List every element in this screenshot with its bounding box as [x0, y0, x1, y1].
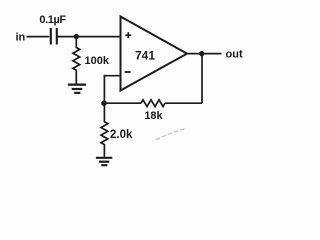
scan artifact mark: [156, 128, 187, 139]
junction node B: [101, 100, 107, 106]
wire op-amp - input stub: [104, 75, 121, 77]
ground G2: [96, 158, 112, 165]
resistor R2 2.0k: [101, 103, 108, 157]
resistor R1 100k: [73, 37, 80, 84]
svg-text:in: in: [16, 32, 26, 44]
wire node B to R3: [104, 102, 141, 104]
capacitor C1 0.1uF: [51, 28, 57, 45]
junction node OUT: [199, 51, 204, 56]
junction node A: [74, 34, 79, 39]
minus input marker: [125, 71, 131, 73]
resistor R3 18k: [141, 100, 165, 107]
wire in to C1: [27, 36, 50, 38]
svg-text:741: 741: [135, 49, 155, 63]
wire C1 to op-amp + input: [57, 36, 121, 38]
svg-text:18k: 18k: [144, 110, 163, 122]
svg-text:0.1µF: 0.1µF: [39, 14, 66, 26]
plus input marker: [125, 32, 131, 38]
svg-text:2.0k: 2.0k: [110, 129, 133, 141]
svg-text:100k: 100k: [85, 55, 110, 67]
wire - input down to node B: [103, 75, 105, 103]
op-amp U1 741: [121, 17, 188, 91]
ground G1: [68, 85, 86, 93]
svg-text:out: out: [226, 49, 243, 61]
wire R3 to feedback corner: [165, 102, 202, 104]
wire feedback up to output: [201, 54, 203, 104]
wire op-amp output: [186, 53, 222, 55]
